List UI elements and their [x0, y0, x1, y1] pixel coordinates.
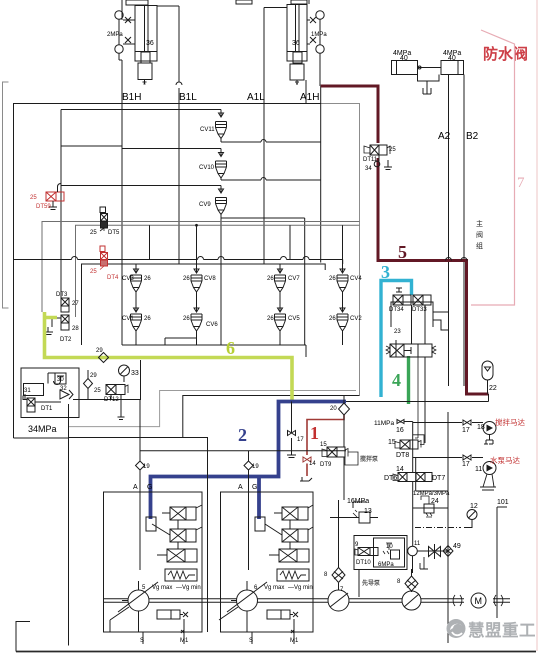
svg-text:25: 25 [30, 195, 37, 201]
main vertical 412.7 [412, 422, 414, 473]
11MPa shutoff 25 [397, 420, 413, 424]
svg-text:DT3: DT3 [56, 292, 68, 298]
bottom collect bus [122, 345, 306, 357]
svg-text:26: 26 [329, 316, 336, 322]
16MPa valve 13 [353, 502, 366, 508]
gauge 12 [467, 510, 477, 520]
shaft [104, 599, 510, 602]
CV8 [191, 225, 202, 292]
ground drain DT10 [420, 557, 428, 569]
A1L line [264, 7, 287, 9]
cylinder left piston [141, 52, 150, 63]
check valve pair right bottom [316, 45, 324, 53]
24 valve [413, 507, 449, 509]
svg-text:12: 12 [470, 503, 478, 510]
svg-text:36: 36 [146, 40, 154, 47]
svg-text:18: 18 [477, 424, 485, 431]
couplings [453, 595, 503, 606]
svg-text:—Vg min: —Vg min [288, 585, 313, 591]
svg-text:101: 101 [497, 499, 509, 506]
wire 5 maroon top [321, 86, 378, 143]
valve 17 mid [291, 402, 293, 434]
B2 line [463, 75, 465, 387]
wire 5 maroon main [378, 158, 489, 394]
svg-text:23: 23 [394, 329, 401, 335]
accumulator 22 [482, 361, 493, 394]
svg-text:DT8: DT8 [396, 452, 409, 459]
DT9 valve [343, 415, 345, 447]
manifold bottom gray line [69, 391, 356, 427]
svg-text:先导泵: 先导泵 [362, 579, 381, 587]
svg-text:DT4: DT4 [107, 275, 119, 281]
svg-text:S: S [249, 638, 253, 644]
svg-text:14: 14 [309, 461, 316, 467]
svg-text:11: 11 [414, 541, 421, 547]
101 line [497, 507, 507, 618]
gauge 33 [119, 365, 130, 382]
svg-text:G: G [252, 484, 257, 491]
red shutoff 14 [303, 457, 311, 462]
svg-text:DT5: DT5 [108, 230, 120, 236]
svg-text:26: 26 [144, 276, 151, 282]
solenoid DT5 [100, 207, 108, 231]
svg-text:CV3: CV3 [122, 276, 134, 282]
svg-text:7: 7 [517, 175, 525, 191]
frame gray left [3, 82, 9, 308]
main spool 4/3 [390, 344, 404, 357]
line x141 down [140, 360, 142, 400]
svg-text:CV4: CV4 [350, 276, 362, 282]
connector verticals [150, 225, 343, 264]
svg-text:34: 34 [365, 166, 372, 172]
svg-text:40: 40 [400, 55, 408, 62]
solenoid DT12 [106, 385, 128, 420]
svg-text:17: 17 [297, 437, 304, 443]
mixer line [413, 422, 483, 424]
CV6 [191, 307, 202, 331]
svg-text:28: 28 [72, 326, 79, 332]
svg-text:CV9: CV9 [199, 202, 211, 208]
wire 6 yellow-green [45, 312, 293, 401]
svg-text:26: 26 [329, 276, 336, 282]
svg-text:16: 16 [396, 427, 404, 434]
wire 4 green [407, 356, 410, 404]
svg-text:主: 主 [476, 219, 483, 228]
cylinder right top cap [291, 0, 307, 4]
svg-text:26: 26 [183, 316, 190, 322]
svg-text:26: 26 [267, 276, 274, 282]
svg-text:M: M [475, 596, 483, 606]
svg-text:17: 17 [462, 461, 470, 468]
svg-text:1: 1 [310, 423, 319, 443]
svg-text:S: S [140, 638, 144, 644]
svg-text:32: 32 [60, 386, 67, 392]
svg-text:49: 49 [453, 543, 461, 550]
tank line bottom-left [16, 622, 30, 652]
damper 40 left [392, 61, 418, 75]
svg-text:水泵马达: 水泵马达 [490, 455, 520, 465]
svg-text:15: 15 [388, 439, 396, 446]
CV4 [337, 264, 348, 292]
svg-text:DT34: DT34 [389, 307, 404, 313]
svg-text:15: 15 [320, 442, 327, 448]
port labels [122, 92, 319, 103]
svg-text:搅拌泵: 搅拌泵 [360, 455, 379, 463]
top small part right [308, 0, 310, 4]
DT6 / DT7 row [398, 473, 407, 482]
svg-text:DT6: DT6 [384, 475, 397, 482]
A1H bus down [320, 86, 322, 263]
svg-text:40: 40 [448, 55, 456, 62]
svg-text:19: 19 [252, 464, 259, 470]
svg-text:DT12: DT12 [104, 397, 119, 403]
left pump box [104, 492, 203, 632]
svg-text:26: 26 [267, 316, 274, 322]
mixer motor 18 [483, 422, 496, 435]
svg-text:阀: 阀 [476, 230, 483, 239]
DT8 valve [400, 440, 410, 449]
svg-text:25: 25 [94, 388, 101, 394]
svg-text:CV8: CV8 [204, 276, 216, 282]
pump 6 circle [237, 590, 258, 611]
links to A2/B2 [433, 312, 449, 330]
check valve pair left bottom [115, 45, 123, 53]
svg-text:慧盟重工: 慧盟重工 [468, 620, 536, 640]
svg-text:29: 29 [96, 348, 103, 354]
B1L line [157, 5, 179, 7]
CV1 [131, 307, 142, 331]
diamond 49 [443, 546, 453, 557]
svg-text:搅拌马达: 搅拌马达 [495, 417, 525, 427]
svg-text:B1H: B1H [122, 92, 141, 103]
svg-text:13: 13 [364, 508, 372, 515]
svg-text:Vg max: Vg max [264, 585, 284, 591]
svg-text:17: 17 [462, 427, 470, 434]
svg-text:16MPa: 16MPa [347, 498, 369, 505]
svg-text:Vg max: Vg max [152, 585, 172, 591]
svg-text:1MPa: 1MPa [311, 32, 327, 38]
manifold outer box [14, 104, 321, 439]
svg-text:A1L: A1L [247, 92, 265, 103]
solenoid DT59 red [46, 192, 64, 201]
CV9 [216, 186, 227, 346]
svg-text:31: 31 [24, 388, 31, 394]
check valve pair left top [115, 11, 123, 19]
svg-text:33: 33 [131, 370, 139, 377]
svg-text:CV6: CV6 [206, 322, 218, 328]
svg-text:26: 26 [144, 316, 151, 322]
pump 5 circle [128, 590, 149, 611]
B1H line [121, 60, 123, 146]
pump unit 6 internals [219, 492, 313, 644]
inner bus top [61, 110, 216, 301]
cylinder left top cap [126, 0, 148, 5]
svg-text:25: 25 [389, 147, 396, 153]
frame pink right [536, 0, 538, 651]
bottom border [16, 651, 536, 653]
line block bottom to pumps [69, 438, 208, 493]
pump 8 [402, 591, 421, 610]
pilot pump 11 circle [408, 546, 418, 556]
A1L bus down [263, 104, 265, 265]
svg-text:19: 19 [143, 464, 150, 470]
diamond 29 on green [84, 353, 109, 400]
svg-text:DT59: DT59 [36, 204, 51, 210]
motor M [471, 593, 486, 608]
svg-text:A: A [133, 484, 138, 491]
svg-text:CV7: CV7 [288, 276, 300, 282]
svg-text:30: 30 [57, 377, 64, 383]
mid bus 1 gray [42, 222, 360, 313]
svg-text:29: 29 [90, 373, 97, 379]
svg-text:10: 10 [386, 544, 393, 550]
svg-text:CV1: CV1 [122, 316, 134, 322]
box around 24 area [416, 458, 449, 492]
CV11 [216, 110, 227, 143]
svg-text:6: 6 [226, 338, 235, 358]
svg-text:G: G [147, 484, 152, 491]
svg-text:—Vg min: —Vg min [176, 585, 201, 591]
svg-text:A1H: A1H [300, 92, 319, 103]
CV labels [90, 127, 362, 328]
CV row 1 and 2 [122, 225, 348, 357]
svg-text:14: 14 [396, 466, 404, 473]
svg-text:36: 36 [292, 40, 300, 47]
DT3 / DT2 cluster [44, 298, 69, 335]
svg-text:26: 26 [183, 276, 190, 282]
tank tee below dampers [418, 75, 440, 89]
svg-text:4: 4 [392, 370, 401, 390]
pilot out line [24, 394, 26, 400]
CV2 [337, 307, 348, 331]
svg-text:DT1: DT1 [41, 406, 53, 412]
wire 1 red [307, 415, 344, 455]
svg-text:DT7: DT7 [432, 475, 445, 482]
wire B1H to bus [61, 145, 122, 147]
svg-text:20: 20 [330, 406, 337, 412]
svg-text:M1: M1 [290, 638, 299, 644]
svg-text:2MPa: 2MPa [107, 32, 123, 38]
cylinder left rod [144, 6, 146, 53]
link between dampers [418, 67, 442, 69]
svg-text:DT33: DT33 [412, 307, 427, 313]
damper 40 right [441, 61, 464, 75]
svg-text:27: 27 [72, 301, 79, 307]
propeller [429, 544, 441, 559]
svg-text:6MPa: 6MPa [378, 562, 394, 568]
A1H line [305, 80, 307, 104]
svg-text:DT2: DT2 [60, 337, 72, 343]
svg-text:DT10: DT10 [356, 560, 371, 566]
verticals [412, 556, 414, 573]
bracket 7 (pink) [471, 30, 515, 305]
svg-text:B2: B2 [466, 131, 479, 142]
CV7 [275, 264, 286, 292]
svg-text:12MPa/3MPa: 12MPa/3MPa [413, 491, 450, 497]
svg-text:5: 5 [398, 242, 407, 262]
svg-text:11MPa: 11MPa [374, 420, 394, 427]
CV10 [216, 149, 227, 181]
bus y401 black [346, 394, 489, 402]
CV9 outlet [221, 218, 305, 345]
pump 7 [328, 590, 349, 611]
CV5 [275, 307, 286, 331]
check valve pair right top [316, 11, 324, 19]
svg-text:CV5: CV5 [288, 316, 300, 322]
water motor 11 [483, 462, 496, 475]
cylinder left body [135, 6, 157, 62]
pump unit 5 internals [110, 492, 247, 644]
CV11 outlet [221, 140, 321, 143]
svg-text:CV11: CV11 [200, 127, 215, 133]
mid bus 4 with jumpovers [14, 257, 343, 265]
svg-text:A2: A2 [438, 131, 451, 142]
wire 2 navy [151, 402, 347, 520]
svg-text:22: 22 [489, 385, 497, 392]
filters 8 [332, 568, 345, 583]
svg-text:25: 25 [90, 230, 97, 236]
A2 line [448, 75, 450, 387]
svg-text:A: A [238, 484, 243, 491]
svg-text:34MPa: 34MPa [28, 424, 57, 434]
svg-text:M1: M1 [180, 638, 189, 644]
svg-text:25: 25 [90, 269, 97, 275]
wire DT10 to shaft [358, 570, 360, 598]
svg-text:防水阀: 防水阀 [483, 45, 528, 63]
right pump box [221, 492, 314, 632]
svg-text:B1L: B1L [179, 92, 197, 103]
CV10 outlet [221, 178, 321, 181]
pilot caps [391, 302, 433, 327]
CV3 [131, 264, 142, 292]
svg-text:DT9: DT9 [320, 462, 332, 468]
water pump line [413, 457, 483, 459]
svg-text:24: 24 [431, 498, 439, 505]
svg-text:2: 2 [238, 425, 247, 445]
svg-text:CV10: CV10 [199, 165, 215, 171]
diamond 20 [339, 403, 350, 415]
svg-text:3: 3 [381, 262, 390, 282]
CV9 inlet [61, 185, 216, 187]
svg-text:11: 11 [475, 466, 482, 473]
B1L into manifold [178, 104, 180, 265]
cylinder right body [287, 5, 307, 62]
wire 3 cyan [381, 281, 412, 398]
svg-text:DT11: DT11 [363, 157, 378, 163]
svg-text:CV2: CV2 [350, 316, 362, 322]
DT10 box [354, 536, 407, 570]
CV10 inlet [122, 148, 216, 150]
solenoid DT4 red [100, 246, 108, 270]
svg-text:组: 组 [476, 241, 483, 250]
